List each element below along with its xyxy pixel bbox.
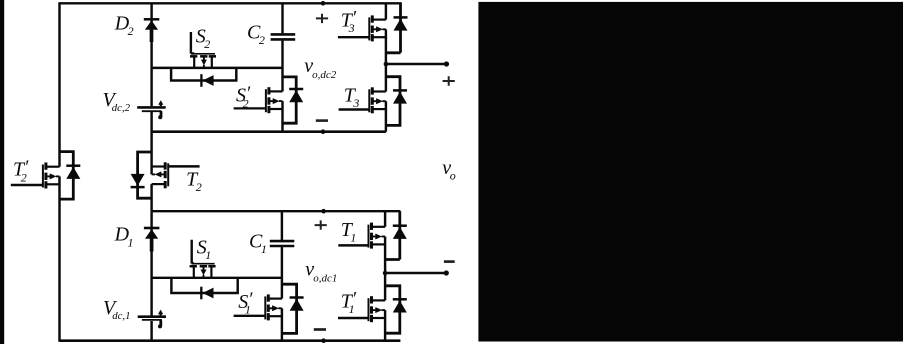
wire cell-1 left branch (through D1 to battery) [150, 211, 152, 315]
label - (output) [444, 260, 455, 263]
transistor S2' gate lead [234, 107, 266, 109]
wire S1' source down to bottom rail [281, 308, 283, 340]
transistor S2' (MOSFET on C2 branch) [266, 87, 283, 113]
transistor T2 (on middle branch, rotated 180) [152, 162, 169, 188]
wire cell-2 bottom rail [152, 130, 386, 133]
transistor T2' (on left outer wire) [43, 163, 60, 189]
wire S1 gate lead [192, 240, 194, 264]
svg-text:T′2: T′2 [13, 157, 29, 185]
capacitor C2 [271, 34, 296, 39]
svg-text:T′3: T′3 [341, 8, 357, 36]
wire cell-1 top rail [152, 210, 401, 212]
transistor T1' (lower bridge MOSFET) [369, 296, 386, 322]
transistor S2' body diode [289, 89, 303, 102]
node terminal dot - output [444, 270, 449, 275]
transistor S2 body diode (points left) [201, 74, 213, 87]
wire T2' parallel-diode loop [60, 152, 74, 200]
wire S1 antiparallel diode loop [171, 278, 237, 293]
transistor T3 body diode [393, 90, 407, 103]
wire left outer (lower segment from T2' body to bottom rail) [58, 176, 60, 341]
label - (cell 1) [314, 328, 326, 331]
wire S2' body-diode loop [283, 77, 297, 123]
wire S2 gate lead [191, 32, 194, 54]
wire C2 branch upper [281, 3, 283, 33]
wire T1 body/source down to mid rail [384, 237, 386, 274]
wire T3 body/source down to bottom rail [385, 101, 387, 132]
capacitor C1 [270, 241, 295, 246]
label + (cell 1) [315, 220, 327, 229]
wire S1' body-diode loop [282, 284, 297, 333]
wire T2 parallel-diode loop [138, 152, 152, 198]
wire C1 branch upper [281, 211, 283, 240]
node junction dot bottom rail [321, 338, 326, 343]
wire left outer (upper segment to T2' drain) [58, 2, 60, 167]
wire cell-1 left branch below battery [150, 321, 152, 341]
diode D2 [144, 19, 160, 42]
transistor S1 body diode (points left) [201, 287, 213, 300]
node junction dot cell-2 bottom rail [321, 129, 326, 134]
wire T1' body-diode loop [385, 286, 400, 333]
transistor S1' gate lead [234, 315, 266, 317]
wire T3 gate lead [339, 108, 370, 110]
transistor T1' body diode [393, 299, 407, 312]
node junction dot top rail [321, 1, 326, 6]
wire T1' body/source down to bottom rail [384, 310, 386, 341]
wire S2 rail [152, 67, 283, 69]
wire mid rail to - output [385, 272, 446, 274]
wire S2' source down to cell-2 bottom rail [281, 101, 283, 132]
battery source Vdc1 [138, 310, 166, 329]
wire T1 body-diode loop [385, 211, 400, 259]
wire T3' body/source down to mid rail [385, 29, 387, 64]
svg-text:T′1: T′1 [341, 289, 357, 317]
wire T3' drain from top rail [385, 3, 387, 19]
wire T2 drain to cell-1 top rail [150, 184, 152, 211]
node junction dot cell-1 top rail [321, 209, 326, 214]
transistor T1 body diode [393, 226, 407, 239]
wire C2 branch between C2 and S2 rail [281, 41, 283, 92]
node terminal dot + output [444, 61, 449, 66]
node junction dot mid rail 2 [384, 62, 389, 67]
transistor S2 (MOSFET, gate up) [190, 54, 216, 68]
wire T3 drain from mid rail [385, 64, 387, 92]
wire T1' drain from mid rail [384, 273, 386, 300]
wire S1 rail [152, 277, 282, 279]
wire T3' body-diode loop [386, 3, 401, 53]
transistor S1' (MOSFET on C1 branch) [265, 294, 282, 320]
wire C1 branch between C1 and S1 rail [281, 247, 283, 299]
wire S2 antiparallel diode loop [171, 68, 236, 81]
battery source Vdc2 [137, 100, 166, 119]
wire T2 gate lead [168, 165, 199, 167]
wire T3 body-diode loop [386, 77, 400, 126]
transistor S1 (MOSFET, gate up) [190, 264, 216, 278]
node junction dot mid rail 1 [383, 271, 388, 276]
label - (cell 2) [316, 119, 328, 122]
transistor T3' (upper bridge MOSFET) [369, 15, 386, 41]
transistor T3 (lower bridge MOSFET) [369, 87, 386, 113]
wire cell-2 left branch top (through D2 to battery) [150, 3, 152, 106]
wire T1 gate lead [338, 244, 368, 246]
wire bottom rail [60, 339, 401, 342]
wire cell-2 left branch below battery to T2 [150, 112, 152, 175]
label + (output) [443, 76, 455, 85]
wire mid rail to + output [386, 63, 447, 65]
wire T3' gate lead [338, 36, 369, 38]
diode D1 [144, 228, 160, 252]
transistor T1 (upper bridge MOSFET) [369, 223, 386, 249]
wire T1 drain from cell-1 top rail [384, 211, 386, 227]
transistor T2' body diode [66, 166, 80, 179]
label + (cell 2) [316, 14, 328, 23]
black scan bar left edge [0, 0, 4, 344]
wire top rail [60, 2, 402, 4]
transistor T3' body diode [394, 17, 408, 30]
black masked region right [478, 2, 903, 342]
wire T1' gate lead [338, 317, 369, 319]
wire T2' gate lead [11, 184, 43, 186]
transistor S1' body diode [290, 298, 304, 311]
transistor T2 body diode (points down) [131, 174, 145, 187]
